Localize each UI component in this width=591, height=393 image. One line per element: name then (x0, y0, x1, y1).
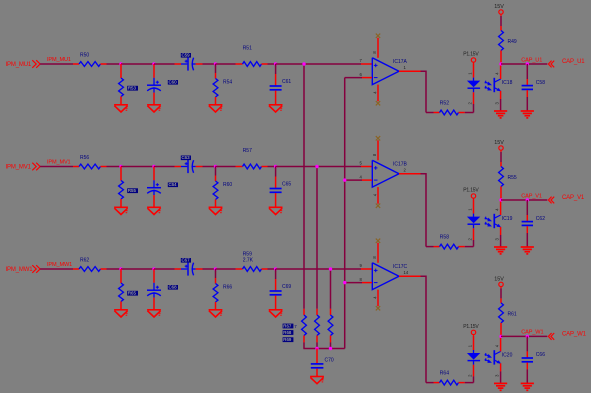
resistor R67 (302, 309, 307, 349)
wire (500, 91, 502, 111)
svg-text:R56: R56 (80, 155, 89, 161)
resistor R53 (119, 64, 124, 105)
port IPM_MV1 (6, 163, 41, 171)
resistor R58 (434, 244, 465, 249)
svg-text:IC18: IC18 (502, 80, 513, 86)
port IPM_MU1 (6, 60, 41, 68)
svg-text:C64: C64 (169, 182, 178, 187)
resistor R57 (236, 164, 268, 169)
wire (203, 63, 216, 65)
junction (302, 62, 305, 65)
LED of IC20 (467, 336, 480, 383)
wire (500, 338, 502, 352)
svg-text:IPM_MW1: IPM_MW1 (47, 262, 72, 268)
svg-text:R55: R55 (508, 175, 517, 181)
wire (276, 268, 361, 270)
junction (152, 62, 155, 65)
resistor R62 (73, 267, 107, 272)
junction (214, 165, 217, 168)
net label IPM_MW1 (47, 262, 72, 268)
wire (465, 382, 474, 384)
svg-text:CAP_W1: CAP_W1 (562, 332, 587, 338)
label R61 (508, 312, 517, 318)
label IC17C (393, 264, 408, 270)
wire (268, 268, 276, 270)
label R57 (243, 148, 252, 154)
wire (421, 276, 427, 382)
junction (526, 62, 529, 65)
ground (494, 111, 507, 118)
svg-text:IC19: IC19 (502, 216, 513, 222)
pin 4 (495, 72, 500, 75)
wire (107, 63, 122, 65)
wire (421, 174, 427, 247)
no-ERC marker (376, 34, 380, 38)
pin 4 (372, 193, 377, 196)
svg-text:C61: C61 (282, 79, 291, 85)
label IC17A (393, 59, 408, 65)
pin 4 (495, 344, 500, 347)
wire (154, 166, 175, 168)
label R56 (80, 155, 89, 161)
resistor R64 (434, 380, 465, 385)
resistor R49 (499, 26, 504, 64)
junction (343, 281, 346, 284)
wire (500, 66, 502, 80)
no-ERC marker (376, 101, 380, 105)
label R62 (80, 258, 89, 264)
capacitor C63 (175, 160, 203, 173)
resistor R56 (73, 164, 107, 169)
pin 1 (468, 208, 473, 211)
wire (154, 63, 175, 65)
power P1.15V (463, 51, 479, 63)
label R51 (243, 45, 252, 51)
svg-text:P1.15V: P1.15V (463, 324, 479, 330)
label C66 (536, 352, 545, 358)
wire (203, 268, 216, 270)
label C61 (282, 79, 291, 85)
LED of IC19 (467, 200, 480, 247)
svg-text:CAP_V1: CAP_V1 (521, 193, 542, 199)
wire (377, 140, 379, 160)
label C67 (181, 258, 191, 263)
op-amp IC17A (372, 58, 399, 85)
label R54 (223, 79, 232, 85)
ground (521, 111, 534, 118)
wire (276, 166, 361, 168)
junction (499, 198, 502, 201)
pin 3 (495, 374, 500, 377)
svg-text:R54: R54 (223, 79, 232, 85)
svg-text:IPM_MV1: IPM_MV1 (47, 160, 71, 166)
svg-text:R67: R67 (283, 324, 292, 329)
junction (214, 267, 217, 270)
no-ERC marker (376, 204, 380, 208)
ground (114, 207, 128, 214)
wire (40, 166, 73, 168)
resistor R50 (73, 62, 107, 67)
capacitor C61 (270, 64, 282, 105)
power P1.15V (463, 324, 479, 336)
pin 4 (359, 175, 362, 180)
label R60 (223, 182, 232, 188)
resistor R68 (315, 309, 320, 349)
wire (362, 77, 372, 79)
value 2.7K (243, 257, 254, 263)
wire (216, 166, 236, 168)
svg-text:C69: C69 (282, 284, 291, 290)
label C64 (168, 182, 178, 187)
wire (268, 166, 276, 168)
port CAP_W1 (548, 332, 586, 340)
junction (343, 178, 346, 181)
wire (361, 268, 372, 270)
pin 6 (359, 72, 362, 77)
wire (426, 246, 434, 248)
junction (329, 347, 332, 350)
label R52 (440, 101, 449, 107)
ground (147, 105, 161, 112)
label C63 (181, 155, 191, 160)
pin 3 (495, 238, 500, 241)
label R58 (440, 235, 449, 241)
label C68 (168, 285, 178, 290)
capacitor C70 (311, 349, 324, 377)
capacitor C64 (147, 167, 161, 208)
svg-text:IC17B: IC17B (393, 162, 408, 168)
svg-text:IPM_MU1: IPM_MU1 (6, 62, 32, 68)
svg-text:C62: C62 (536, 216, 545, 222)
svg-text:R61: R61 (508, 312, 517, 318)
wire (330, 269, 332, 309)
port IPM_MW1 (6, 265, 41, 273)
svg-text:CAP_V1: CAP_V1 (562, 195, 585, 201)
wire (465, 246, 474, 248)
label R53 (127, 86, 138, 91)
resistor R51 (236, 62, 268, 67)
svg-text:R53: R53 (128, 86, 137, 91)
junction (499, 335, 502, 338)
pin 8 (372, 51, 377, 54)
wire (500, 227, 502, 247)
wire (107, 268, 122, 270)
net label IPM_MU1 (47, 57, 71, 63)
capacitor C62 (522, 200, 533, 247)
label R67 (283, 324, 298, 329)
junction (499, 62, 502, 65)
label R59 (243, 252, 252, 258)
wire (361, 63, 372, 65)
svg-text:R50: R50 (80, 53, 89, 59)
svg-text:R55: R55 (128, 188, 137, 193)
resistor R54 (213, 64, 218, 105)
label R68 (283, 330, 294, 335)
pin 4 (495, 208, 500, 211)
wire (40, 63, 73, 65)
label R69 (283, 337, 294, 342)
label R66 (223, 284, 232, 290)
label C65 (282, 181, 291, 187)
wire (377, 187, 379, 204)
pin 8 (359, 277, 362, 282)
pin 9 (359, 263, 362, 268)
LED of IC18 (467, 64, 480, 113)
power 15V (494, 140, 504, 152)
label C60 (168, 80, 178, 85)
wire (500, 16, 502, 26)
label IC20 (502, 353, 513, 359)
ground (269, 207, 283, 214)
resistor R69 (328, 309, 333, 349)
no-ERC marker (376, 306, 380, 310)
junction (274, 62, 277, 65)
junction (315, 347, 318, 350)
junction (274, 267, 277, 270)
label C69 (282, 284, 291, 290)
label IC17B (393, 162, 408, 168)
label R65 (127, 291, 138, 296)
pin 1 (404, 65, 407, 70)
power 15V (494, 276, 504, 288)
capacitor C68 (147, 269, 161, 310)
wire (377, 243, 379, 263)
junction (526, 198, 529, 201)
svg-text:CAP_W1: CAP_W1 (521, 330, 543, 336)
wire (303, 348, 344, 350)
svg-text:IC20: IC20 (502, 353, 513, 359)
svg-text:R69: R69 (283, 337, 292, 342)
pin 7 (359, 58, 362, 63)
pin 8 (372, 256, 377, 259)
wire (276, 63, 361, 65)
wire (121, 63, 154, 65)
port CAP_V1 (548, 195, 585, 203)
wire (399, 275, 421, 277)
wire (362, 179, 372, 181)
svg-text:R68: R68 (283, 330, 292, 335)
wire (501, 199, 547, 201)
capacitor C69 (270, 269, 282, 310)
svg-text:CAP_U1: CAP_U1 (562, 59, 585, 65)
svg-text:P1.15V: P1.15V (463, 51, 479, 57)
svg-text:C70: C70 (325, 357, 334, 363)
svg-text:15V: 15V (494, 140, 504, 146)
ground (521, 247, 534, 254)
svg-text:P1.15V: P1.15V (463, 187, 479, 193)
svg-text:C63: C63 (182, 155, 191, 160)
pin 2 (468, 102, 473, 105)
ground (209, 310, 223, 317)
svg-text:2.7K: 2.7K (243, 257, 254, 263)
junction (315, 165, 318, 168)
label IC18 (502, 80, 513, 86)
svg-text:C58: C58 (536, 80, 545, 86)
wire (500, 288, 502, 298)
wire (107, 166, 122, 168)
optocoupler IC18 (485, 78, 501, 92)
svg-text:IPM_MW1: IPM_MW1 (6, 267, 34, 273)
resistor R66 (213, 269, 218, 310)
svg-text:R57: R57 (243, 148, 252, 154)
ground (310, 377, 324, 384)
wire (501, 63, 547, 65)
ground (209, 207, 223, 214)
wire (362, 282, 372, 284)
capacitor C59 (175, 57, 203, 70)
wire (361, 166, 372, 168)
label C59 (181, 53, 191, 58)
ground (521, 383, 534, 390)
label R50 (80, 53, 89, 59)
optocoupler IC20 (485, 350, 501, 364)
wire (303, 64, 305, 309)
wire (121, 268, 154, 270)
pin 2 (468, 374, 473, 377)
svg-text:R52: R52 (440, 101, 449, 107)
wire (501, 335, 547, 337)
svg-text:C66: C66 (536, 352, 545, 358)
junction (329, 267, 332, 270)
pin 4 (372, 296, 377, 299)
no-ERC marker (376, 239, 380, 243)
wire (399, 173, 421, 175)
wire (500, 152, 502, 162)
svg-text:15V: 15V (494, 276, 504, 282)
power P1.15V (463, 187, 479, 199)
op-amp IC17C (372, 263, 399, 290)
svg-text:15V: 15V (494, 4, 504, 10)
svg-text:R49: R49 (508, 39, 517, 45)
ground (147, 310, 161, 317)
label C62 (536, 216, 545, 222)
net label CAP_W1 (521, 330, 543, 336)
label R55 (508, 175, 517, 181)
label C70 (325, 357, 334, 363)
resistor R52 (434, 110, 465, 115)
wire (345, 77, 362, 79)
ground (209, 105, 223, 112)
wire (344, 78, 346, 349)
junction (152, 165, 155, 168)
ground (114, 310, 128, 317)
svg-text:R51: R51 (243, 45, 252, 51)
ground (269, 105, 283, 112)
svg-text:C67: C67 (182, 258, 191, 263)
wire (345, 282, 362, 284)
pin 1 (468, 344, 473, 347)
wire (426, 382, 434, 384)
junction (214, 62, 217, 65)
svg-text:R65: R65 (128, 291, 137, 296)
net label CAP_U1 (521, 57, 542, 63)
wire (465, 112, 474, 114)
wire (500, 363, 502, 383)
resistor R60 (213, 167, 218, 208)
ground (114, 105, 128, 112)
pin 14 (404, 270, 409, 275)
svg-text:CAP_U1: CAP_U1 (521, 57, 542, 63)
svg-text:R60: R60 (223, 182, 232, 188)
wire (40, 268, 73, 270)
label C58 (536, 80, 545, 86)
junction (119, 62, 122, 65)
wire (216, 268, 236, 270)
svg-text:R58: R58 (440, 235, 449, 241)
port CAP_U1 (548, 59, 585, 67)
wire (421, 71, 427, 112)
svg-text:IC17C: IC17C (393, 264, 408, 270)
wire (216, 63, 236, 65)
capacitor C60 (147, 64, 161, 105)
label R64 (440, 371, 449, 377)
capacitor C66 (522, 336, 533, 383)
ground (494, 383, 507, 390)
junction (526, 335, 529, 338)
ground (147, 207, 161, 214)
net label IPM_MV1 (47, 160, 71, 166)
capacitor C65 (270, 167, 282, 208)
junction (152, 267, 155, 270)
junction (119, 165, 122, 168)
svg-text:C60: C60 (169, 80, 178, 85)
svg-text:C65: C65 (282, 181, 291, 187)
resistor R59 (236, 267, 268, 272)
junction (119, 267, 122, 270)
wire (203, 166, 216, 168)
pin 2 (468, 238, 473, 241)
pin 8 (372, 153, 377, 156)
wire (426, 112, 434, 114)
wire (345, 179, 362, 181)
resistor R65 (119, 269, 124, 310)
svg-text:R66: R66 (223, 284, 232, 290)
svg-text:IC17A: IC17A (393, 59, 408, 65)
label R49 (508, 39, 517, 45)
svg-text:C68: C68 (169, 285, 178, 290)
pin 3 (495, 102, 500, 105)
ground (269, 310, 283, 317)
resistor R61 (499, 298, 504, 336)
junction (274, 165, 277, 168)
wire (399, 70, 421, 72)
op-amp IC17B (372, 160, 399, 187)
label R55 (127, 188, 138, 193)
power 15V (494, 4, 504, 16)
capacitor C67 (175, 262, 203, 275)
svg-text:R62: R62 (80, 258, 89, 264)
label IC19 (502, 216, 513, 222)
resistor R55 (499, 162, 504, 200)
pin 1 (468, 72, 473, 75)
wire (121, 166, 154, 168)
svg-text:IPM_MU1: IPM_MU1 (47, 57, 71, 63)
capacitor C58 (522, 64, 533, 111)
wire (377, 290, 379, 307)
wire (268, 63, 276, 65)
svg-text:C59: C59 (182, 53, 191, 58)
no-ERC marker (376, 136, 380, 140)
optocoupler IC19 (485, 214, 501, 228)
net label CAP_V1 (521, 193, 542, 199)
svg-text:IPM_MV1: IPM_MV1 (6, 164, 32, 170)
ground (494, 247, 507, 254)
wire (154, 268, 175, 270)
wire (316, 167, 318, 309)
wire (500, 202, 502, 216)
svg-text:14: 14 (404, 270, 409, 275)
svg-text:R64: R64 (440, 371, 449, 377)
